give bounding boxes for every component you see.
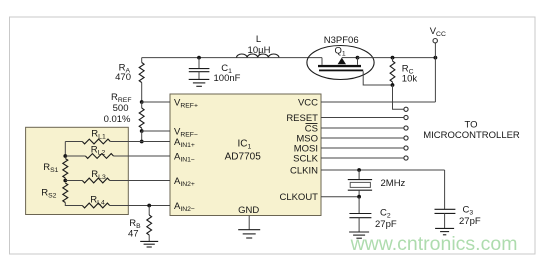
wire MOSI pin bbox=[321, 147, 404, 149]
svg-text:www.cntronics.com: www.cntronics.com bbox=[350, 233, 518, 255]
wire Q1 source stub bbox=[321, 58, 323, 65]
node crystal top junction bbox=[357, 168, 361, 172]
Q1 channel bar bbox=[318, 65, 361, 67]
svg-text:500: 500 bbox=[113, 103, 129, 114]
node VCC tee junction bbox=[434, 56, 438, 60]
svg-text:0.01%: 0.01% bbox=[104, 114, 131, 125]
node AIN1+ junction bbox=[140, 140, 144, 144]
wire RL2 to AIN1- bbox=[114, 155, 171, 157]
wire CS pin bbox=[321, 127, 404, 129]
wire Q1 body to drain bbox=[342, 57, 358, 59]
svg-text:TO: TO bbox=[464, 120, 477, 131]
terminal circle RESET bbox=[404, 115, 408, 119]
wire MSO pin bbox=[321, 137, 404, 139]
ground below IC bbox=[248, 216, 250, 230]
resistor RL1 bbox=[65, 141, 82, 143]
node RS1 top junction bbox=[63, 154, 67, 158]
svg-text:100nF: 100nF bbox=[214, 73, 241, 84]
wire gate node to terminal bbox=[393, 85, 404, 109]
node crystal bottom junction bbox=[357, 195, 361, 199]
svg-text:MICROCONTROLLER: MICROCONTROLLER bbox=[423, 130, 520, 141]
resistor RA 470 bbox=[141, 58, 143, 63]
svg-text:RESET: RESET bbox=[286, 113, 318, 124]
crystal Y1 2MHz bbox=[358, 170, 360, 180]
terminal circle gate line bbox=[404, 107, 408, 111]
wire drain to VCC corner bbox=[358, 57, 436, 59]
terminal circle SCLK bbox=[404, 156, 408, 160]
wire VCC pin bbox=[321, 101, 435, 103]
capacitor C1 bbox=[198, 58, 200, 69]
wire RESET pin bbox=[321, 117, 404, 119]
node RB top junction bbox=[147, 204, 151, 208]
Q1 gate bar bbox=[319, 70, 363, 72]
node C1 top junction bbox=[197, 56, 201, 60]
inductor L 10uH bbox=[237, 54, 279, 58]
wire RL3 to AIN2+ bbox=[110, 180, 170, 182]
IC IC1 AD7705 box bbox=[170, 94, 321, 216]
resistor RS1 bbox=[63, 159, 68, 179]
capacitor C2 bbox=[358, 197, 360, 214]
svg-text:2MHz: 2MHz bbox=[381, 178, 406, 189]
wire CLKIN pin to C3 bbox=[321, 169, 445, 171]
svg-text:CLKIN: CLKIN bbox=[290, 165, 318, 176]
ground below RB bbox=[140, 240, 158, 242]
resistor RB 47 bbox=[148, 206, 150, 216]
node Q1 drain junction bbox=[356, 56, 360, 60]
resistor RL4 bbox=[82, 203, 109, 208]
svg-text:GND: GND bbox=[238, 205, 259, 216]
VCC terminal circle bbox=[433, 39, 437, 43]
svg-text:SCLK: SCLK bbox=[293, 153, 318, 164]
wire VREF- down to AIN1+ line bbox=[141, 131, 143, 142]
node RS1 bottom junction bbox=[63, 179, 67, 183]
svg-text:10k: 10k bbox=[402, 73, 418, 84]
resistor RS2 bbox=[63, 183, 68, 203]
resistor network box bbox=[26, 127, 129, 214]
svg-text:27pF: 27pF bbox=[375, 219, 397, 230]
wire inductor to Q1 source bbox=[279, 57, 322, 59]
svg-text:470: 470 bbox=[115, 72, 131, 83]
svg-text:CLKOUT: CLKOUT bbox=[279, 192, 318, 203]
svg-text:10µH: 10µH bbox=[248, 45, 271, 56]
wire Q1 gate lead bbox=[363, 71, 392, 85]
terminal circle MOSI bbox=[404, 146, 408, 150]
transistor Q1 N3PF06 bbox=[307, 46, 374, 80]
svg-text:VCC: VCC bbox=[298, 97, 318, 108]
svg-text:AD7705: AD7705 bbox=[225, 152, 262, 163]
wire RL1 left corner down bbox=[64, 142, 66, 157]
resistor RL2 bbox=[65, 155, 85, 157]
wire RL4 to AIN2- bbox=[110, 205, 170, 207]
wire SCLK pin bbox=[321, 157, 404, 159]
wire Q1 drain stub bbox=[357, 58, 359, 65]
svg-text:N3PF06: N3PF06 bbox=[324, 35, 359, 46]
ground below C2 bbox=[349, 231, 369, 233]
ground below C1 bbox=[189, 78, 210, 80]
terminal circle CS bbox=[404, 126, 408, 130]
resistor RC 10k bbox=[392, 58, 394, 61]
capacitor C3 bbox=[444, 170, 446, 209]
svg-text:27pF: 27pF bbox=[459, 216, 481, 227]
node VREF+ junction bbox=[140, 100, 144, 104]
node RC bottom gate junction bbox=[391, 83, 395, 87]
wire VREF- pin bbox=[142, 130, 170, 132]
wire VCC vertical bbox=[434, 43, 436, 102]
Q1 body arrow bbox=[338, 58, 346, 65]
svg-text:L: L bbox=[256, 34, 261, 45]
node VREF- junction bbox=[140, 129, 144, 133]
resistor RREF 500 0.01% bbox=[141, 102, 143, 108]
wire top rail from RA to C1 to inductor bbox=[142, 57, 237, 59]
terminal circle MSO bbox=[404, 136, 408, 140]
ground below C3 bbox=[435, 227, 454, 229]
wire RL1 to AIN1+ bbox=[110, 141, 170, 143]
node RC top junction bbox=[391, 56, 395, 60]
svg-text:47: 47 bbox=[128, 228, 139, 239]
resistor RL3 bbox=[65, 180, 82, 182]
wire CLKOUT pin bbox=[321, 196, 359, 198]
wire VREF+ pin bbox=[142, 101, 170, 103]
